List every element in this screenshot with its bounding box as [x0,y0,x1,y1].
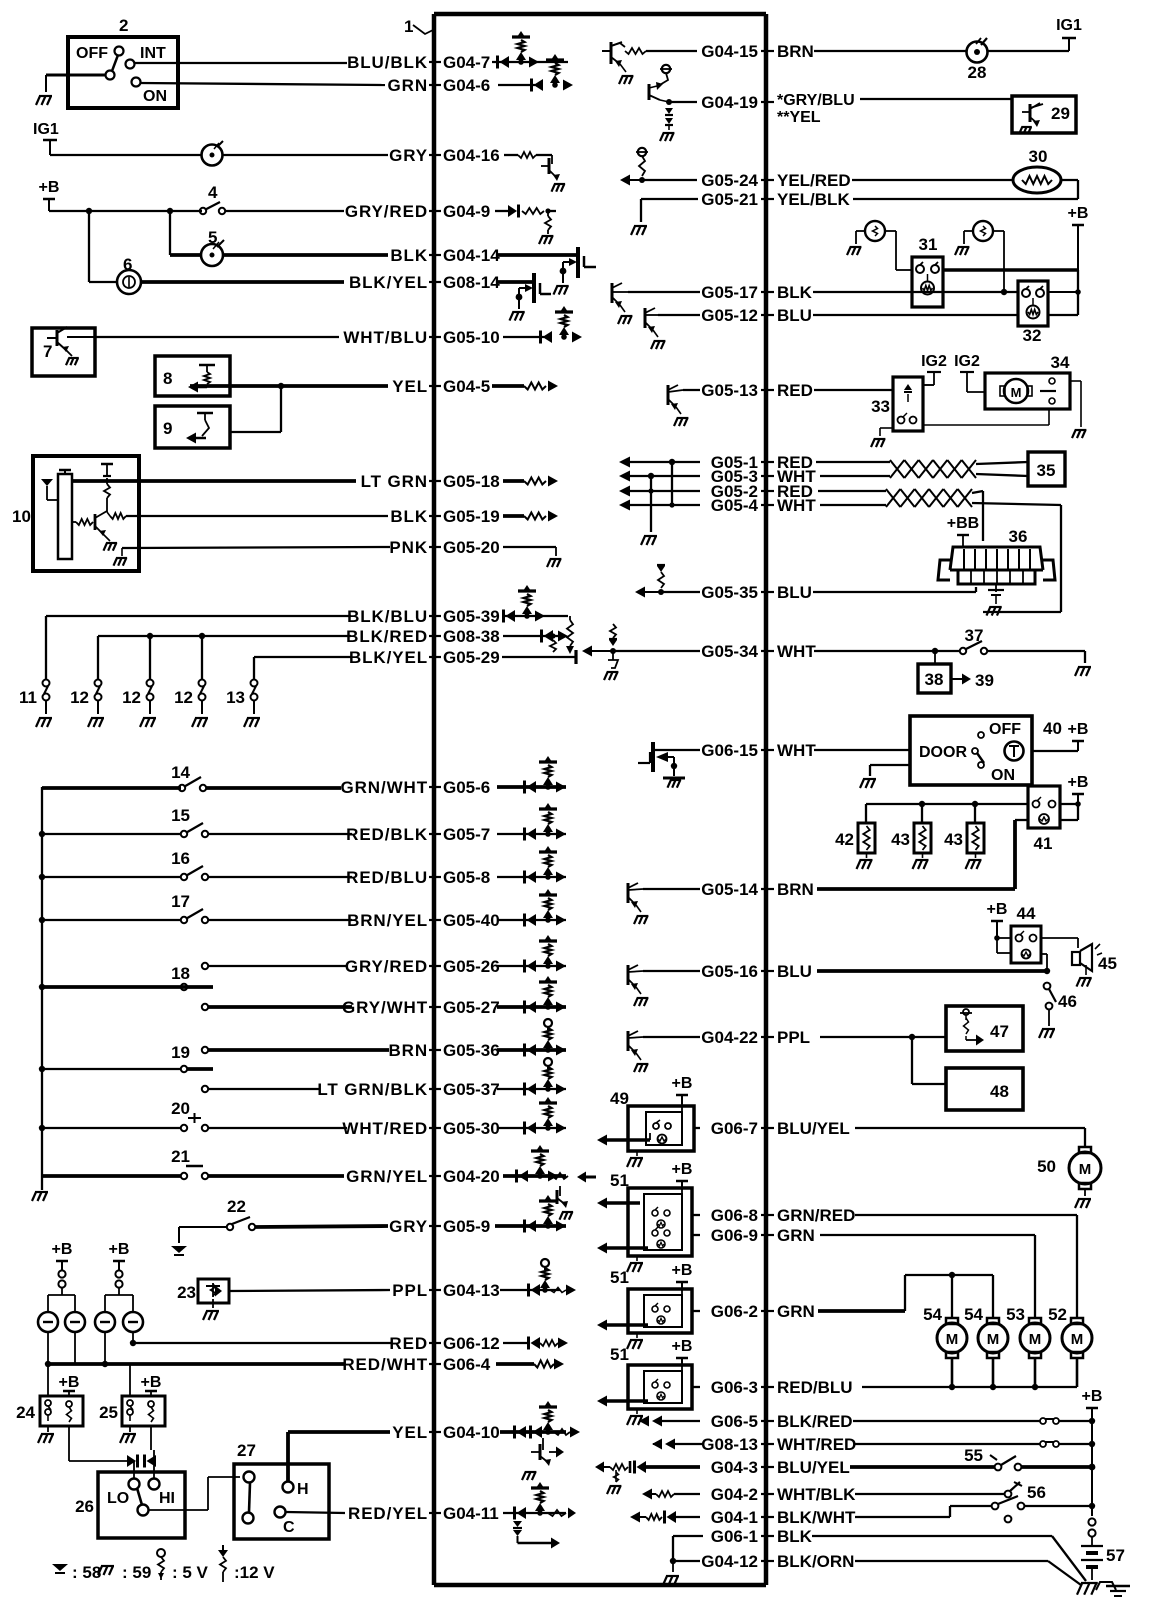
svg-text:G06-3: G06-3 [711,1378,758,1397]
svg-text:31: 31 [919,235,938,254]
svg-text:29: 29 [1051,104,1070,123]
svg-text:BLK: BLK [390,246,428,265]
svg-text:G04-13: G04-13 [443,1281,500,1300]
svg-text:GRY: GRY [389,146,428,165]
svg-text:BRN: BRN [388,1041,428,1060]
svg-text:RED/YEL: RED/YEL [348,1504,428,1523]
svg-text:G04-5: G04-5 [443,377,490,396]
svg-text:51: 51 [610,1268,629,1287]
svg-text:G06-2: G06-2 [711,1302,758,1321]
svg-text:GRN: GRN [388,76,428,95]
svg-text:22: 22 [227,1197,246,1216]
svg-text:G04-22: G04-22 [701,1028,758,1047]
svg-text:17: 17 [171,892,190,911]
svg-text:+BB: +BB [947,515,979,532]
svg-text:+B: +B [672,1262,693,1279]
svg-text:G04-2: G04-2 [711,1485,758,1504]
svg-text:20: 20 [171,1099,190,1118]
svg-text:51: 51 [610,1345,629,1364]
svg-text:G05-27: G05-27 [443,998,500,1017]
svg-text:G05-39: G05-39 [443,607,500,626]
svg-text:GRY: GRY [389,1217,428,1236]
svg-text:OFF: OFF [989,721,1021,738]
svg-text:RED/BLK: RED/BLK [346,825,428,844]
svg-text:G06-12: G06-12 [443,1334,500,1353]
svg-text:52: 52 [1048,1305,1067,1324]
svg-text:+B: +B [672,1075,693,1092]
svg-text:G08-13: G08-13 [701,1435,758,1454]
svg-text:G04-3: G04-3 [711,1458,758,1477]
svg-text:42: 42 [835,830,854,849]
svg-text:48: 48 [990,1082,1009,1101]
svg-text:WHT: WHT [777,741,816,760]
svg-text:+B: +B [59,1374,80,1391]
svg-text:26: 26 [75,1497,94,1516]
svg-text:WHT: WHT [777,642,816,661]
svg-text:BRN: BRN [777,880,814,899]
svg-text:23: 23 [177,1283,196,1302]
svg-text:BLK: BLK [390,507,428,526]
svg-text:GRN/WHT: GRN/WHT [340,778,428,797]
svg-text:44: 44 [1017,904,1036,923]
svg-text:18: 18 [171,964,190,983]
svg-text:PNK: PNK [389,538,428,557]
svg-text:G04-12: G04-12 [701,1552,758,1571]
svg-text:RED: RED [777,381,813,400]
svg-text:G08-14: G08-14 [443,273,500,292]
svg-text:G04-11: G04-11 [443,1504,499,1523]
svg-text:25: 25 [99,1403,118,1422]
svg-text:BLK/BLU: BLK/BLU [347,607,428,626]
svg-text:32: 32 [1023,326,1042,345]
svg-text:19: 19 [171,1043,190,1062]
svg-text:*GRY/BLU: *GRY/BLU [777,92,855,109]
svg-text:28: 28 [968,63,987,82]
svg-text:G05-12: G05-12 [701,306,758,325]
svg-text:G05-40: G05-40 [443,911,500,930]
svg-text:2: 2 [119,16,128,35]
svg-text:12: 12 [122,688,141,707]
svg-text:38: 38 [925,670,944,689]
svg-text:G06-8: G06-8 [711,1206,758,1225]
svg-text:YEL: YEL [392,1423,428,1442]
svg-text:+B: +B [109,1241,130,1258]
svg-text:RED: RED [389,1334,428,1353]
svg-text:+B: +B [672,1338,693,1355]
svg-text:IG1: IG1 [33,121,59,138]
svg-text:+B: +B [52,1241,73,1258]
svg-text:ON: ON [991,767,1015,784]
svg-text:G06-5: G06-5 [711,1412,758,1431]
svg-text:YEL: YEL [392,377,428,396]
svg-text:51: 51 [610,1171,629,1190]
svg-text:BLK/RED: BLK/RED [346,627,428,646]
svg-text:WHT/BLK: WHT/BLK [777,1485,856,1504]
svg-text:BLU/BLK: BLU/BLK [347,53,428,72]
svg-text:G04-14: G04-14 [443,246,500,265]
svg-text:**YEL: **YEL [777,109,821,126]
svg-text:G05-24: G05-24 [701,171,758,190]
svg-text:GRY/RED: GRY/RED [345,202,428,221]
svg-text:INT: INT [140,45,166,62]
svg-text:G05-6: G05-6 [443,778,490,797]
svg-text:15: 15 [171,806,190,825]
svg-text:55: 55 [964,1446,983,1465]
svg-text:GRN: GRN [777,1302,815,1321]
svg-text:M: M [987,1331,1000,1348]
svg-text:G05-36: G05-36 [443,1041,500,1060]
svg-text:12: 12 [174,688,193,707]
svg-text:BRN/YEL: BRN/YEL [347,911,428,930]
svg-text:IG2: IG2 [954,353,980,370]
svg-text:1: 1 [404,17,413,36]
svg-text:57: 57 [1106,1546,1125,1565]
svg-text:OFF: OFF [76,45,108,62]
svg-text:GRY/WHT: GRY/WHT [342,998,428,1017]
svg-text:BLK/YEL: BLK/YEL [349,648,428,667]
svg-text:54: 54 [964,1305,983,1324]
svg-text:LT GRN: LT GRN [361,472,428,491]
svg-text:BLK/RED: BLK/RED [777,1412,853,1431]
svg-text:M: M [946,1331,959,1348]
svg-text:G05-7: G05-7 [443,825,490,844]
svg-text:G05-17: G05-17 [701,283,758,302]
svg-text:BLK: BLK [777,1527,813,1546]
svg-text:WHT/RED: WHT/RED [342,1119,428,1138]
svg-text:M: M [1071,1331,1084,1348]
svg-text:RED/BLU: RED/BLU [777,1378,853,1397]
svg-text:+B: +B [987,901,1008,918]
svg-text:M: M [1079,1161,1092,1178]
svg-text:10: 10 [12,507,31,526]
svg-text:BLK/WHT: BLK/WHT [777,1508,856,1527]
svg-text:+B: +B [1068,774,1089,791]
svg-text:BLK/YEL: BLK/YEL [349,273,428,292]
svg-text:G06-7: G06-7 [711,1119,758,1138]
svg-text:53: 53 [1006,1305,1025,1324]
svg-text:WHT/BLU: WHT/BLU [343,328,428,347]
svg-text:G06-4: G06-4 [443,1355,491,1374]
svg-text:35: 35 [1037,461,1056,480]
svg-text:PPL: PPL [777,1028,810,1047]
svg-text:G04-9: G04-9 [443,202,490,221]
svg-text:G04-6: G04-6 [443,76,490,95]
svg-text:54: 54 [923,1305,942,1324]
svg-text:41: 41 [1034,834,1053,853]
svg-text:G05-14: G05-14 [701,880,758,899]
svg-text:4: 4 [208,183,218,202]
svg-text:BLK/ORN: BLK/ORN [777,1552,854,1571]
svg-text:46: 46 [1058,992,1077,1011]
svg-text:IG1: IG1 [1056,17,1082,34]
svg-text:+B: +B [1082,1388,1103,1405]
svg-text:BLU/YEL: BLU/YEL [777,1119,850,1138]
svg-text:G05-26: G05-26 [443,957,500,976]
svg-text:ON: ON [143,88,167,105]
svg-text:G04-1: G04-1 [711,1508,758,1527]
svg-text:36: 36 [1009,527,1028,546]
svg-text:LT GRN/BLK: LT GRN/BLK [317,1080,428,1099]
svg-text:G04-20: G04-20 [443,1167,500,1186]
svg-text:G04-7: G04-7 [443,53,490,72]
svg-text:50: 50 [1037,1157,1056,1176]
svg-text:14: 14 [171,763,190,782]
svg-text:G05-4: G05-4 [711,496,759,515]
svg-text:BRN: BRN [777,42,814,61]
svg-text:BLU: BLU [777,306,812,325]
svg-text:H: H [297,1481,309,1498]
svg-text:G05-9: G05-9 [443,1217,490,1236]
svg-text:GRN: GRN [777,1226,815,1245]
svg-text:G04-19: G04-19 [701,93,758,112]
svg-text:YEL/RED: YEL/RED [777,171,851,190]
svg-text:G06-15: G06-15 [701,741,758,760]
svg-text:45: 45 [1098,954,1117,973]
svg-text:G05-19: G05-19 [443,507,500,526]
svg-text:: 59: : 59 [122,1563,151,1582]
svg-text:G05-37: G05-37 [443,1080,500,1099]
svg-text:RED/BLU: RED/BLU [346,868,428,887]
svg-text:G05-34: G05-34 [701,642,758,661]
svg-text:G05-16: G05-16 [701,962,758,981]
svg-text:56: 56 [1027,1483,1046,1502]
svg-text:GRN/YEL: GRN/YEL [346,1167,428,1186]
svg-text:G05-8: G05-8 [443,868,490,887]
svg-text:21: 21 [171,1147,190,1166]
svg-text:G04-15: G04-15 [701,42,758,61]
svg-text::12 V: :12 V [234,1563,275,1582]
svg-text:27: 27 [237,1441,256,1460]
svg-text:+B: +B [39,179,60,196]
svg-text:IG2: IG2 [921,353,947,370]
svg-text:49: 49 [610,1089,629,1108]
svg-text:12: 12 [70,688,89,707]
svg-text:G05-13: G05-13 [701,381,758,400]
svg-text:11: 11 [19,688,37,707]
svg-text:G05-29: G05-29 [443,648,500,667]
svg-text:39: 39 [975,671,994,690]
svg-text:G05-35: G05-35 [701,583,758,602]
svg-text:43: 43 [891,830,910,849]
svg-text:+B: +B [1068,721,1089,738]
svg-text:7: 7 [43,342,52,361]
svg-text:GRN/RED: GRN/RED [777,1206,855,1225]
svg-text:M: M [1029,1331,1042,1348]
svg-text:BLK: BLK [777,283,813,302]
svg-text:+B: +B [672,1161,693,1178]
svg-text:WHT: WHT [777,496,816,515]
svg-text:WHT/RED: WHT/RED [777,1435,856,1454]
svg-text:DOOR: DOOR [919,744,967,761]
svg-text:BLU: BLU [777,583,812,602]
svg-text:G06-9: G06-9 [711,1226,758,1245]
svg-text:M: M [1011,385,1022,400]
svg-text:33: 33 [871,397,890,416]
svg-text:G05-21: G05-21 [701,190,758,209]
svg-text:: 5 V: : 5 V [172,1563,209,1582]
svg-text:16: 16 [171,849,190,868]
svg-text:34: 34 [1051,353,1070,372]
svg-text:C: C [283,1519,295,1536]
svg-text:G05-20: G05-20 [443,538,500,557]
svg-text:+B: +B [141,1374,162,1391]
svg-text:24: 24 [16,1403,35,1422]
svg-text:G08-38: G08-38 [443,627,500,646]
svg-text:30: 30 [1029,147,1048,166]
svg-text:G04-10: G04-10 [443,1423,500,1442]
svg-text:8: 8 [163,369,172,388]
svg-text:G04-16: G04-16 [443,146,500,165]
svg-text:: 58: : 58 [72,1563,101,1582]
svg-text:47: 47 [990,1022,1009,1041]
svg-text:G05-30: G05-30 [443,1119,500,1138]
svg-text:LO: LO [107,1490,129,1507]
svg-text:G05-18: G05-18 [443,472,500,491]
svg-text:G05-10: G05-10 [443,328,500,347]
svg-text:YEL/BLK: YEL/BLK [777,190,850,209]
svg-text:PPL: PPL [392,1281,428,1300]
svg-text:43: 43 [944,830,963,849]
svg-text:RED/WHT: RED/WHT [342,1355,428,1374]
svg-text:+B: +B [1068,205,1089,222]
svg-text:HI: HI [159,1490,175,1507]
svg-text:40: 40 [1043,719,1062,738]
svg-text:G06-1: G06-1 [711,1527,758,1546]
svg-text:BLU: BLU [777,962,812,981]
svg-text:13: 13 [226,688,245,707]
svg-text:BLU/YEL: BLU/YEL [777,1458,850,1477]
svg-text:GRY/RED: GRY/RED [345,957,428,976]
svg-text:9: 9 [163,419,172,438]
